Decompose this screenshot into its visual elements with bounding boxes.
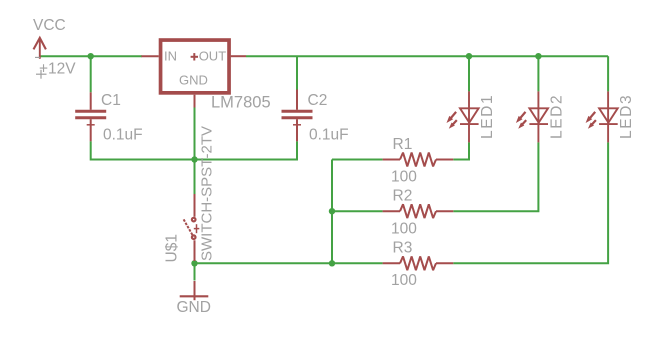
svg-text:GND: GND [177, 299, 211, 316]
resistor R1 [383, 153, 454, 167]
diode LED1 [447, 91, 479, 142]
junction node at VCC/C1 [88, 53, 94, 59]
junction node at switch bottom [191, 260, 197, 266]
svg-text:R1: R1 [393, 136, 413, 153]
plus mark of +OUT [191, 53, 198, 60]
svg-text:C1: C1 [101, 92, 121, 109]
svg-text:VCC: VCC [33, 17, 66, 34]
svg-text:100: 100 [391, 272, 417, 289]
svg-text:LED1: LED1 [479, 94, 496, 139]
wire LED3 top drop [607, 56, 609, 91]
svg-text:100: 100 [391, 169, 417, 186]
svg-text:OUT: OUT [199, 49, 227, 64]
svg-text:LM7805: LM7805 [211, 94, 271, 112]
pin GND stub [194, 95, 196, 108]
pin OUT stub [231, 55, 246, 57]
wire OUT rail [246, 55, 608, 57]
svg-text:LED2: LED2 [549, 94, 566, 139]
svg-text:U$1: U$1 [164, 234, 181, 262]
wire LED2 top drop [537, 56, 539, 91]
svg-text:LED3: LED3 [618, 94, 635, 139]
wire R2 right to LED2 [453, 142, 538, 211]
capacitor C2 [282, 90, 313, 142]
svg-text:R3: R3 [393, 239, 413, 256]
svg-text:GND: GND [179, 72, 208, 87]
resistor R2 [383, 204, 454, 218]
wire LED1 top drop [468, 56, 470, 91]
svg-text:0.1uF: 0.1uF [103, 127, 143, 144]
wire C1 bottom to C2 bottom [91, 141, 297, 159]
pin cross at VCC [36, 70, 47, 79]
wire VCC to IN pin [40, 55, 142, 57]
pin end tick at VCC arrow [35, 56, 40, 58]
svg-text:R2: R2 [393, 188, 413, 205]
junction node at LED1 top [466, 53, 472, 59]
pin IN stub [141, 55, 158, 57]
junction node at LED2 top [535, 53, 541, 59]
svg-text:+12V: +12V [39, 60, 76, 77]
wire R3 right to LED3 [453, 142, 608, 263]
wire C2 top drop [296, 56, 298, 89]
wire switch top [194, 108, 196, 195]
diode LED3 [586, 91, 618, 142]
diode LED2 [516, 91, 548, 142]
wire R3 left [195, 262, 383, 264]
svg-text:SWITCH-SPST-2TV: SWITCH-SPST-2TV [199, 126, 216, 261]
wire left rail R1-R3 [331, 160, 333, 264]
resistor R3 [383, 256, 454, 270]
regulator IC LM7805 box [161, 40, 230, 93]
supply symbol VCC arrow [34, 38, 46, 59]
switch U$1 [184, 194, 200, 261]
wire C1 top drop [90, 56, 92, 92]
svg-text:0.1uF: 0.1uF [309, 127, 349, 144]
wire R1 right to LED1 [453, 142, 469, 159]
wire switch bottom to gnd [194, 261, 196, 281]
capacitor C1 [75, 92, 106, 141]
ground symbol GND [180, 281, 209, 300]
svg-text:100: 100 [391, 220, 417, 237]
junction node at R2 left [329, 208, 335, 214]
wire R1 left [332, 159, 383, 161]
wire R2 left [332, 210, 383, 212]
junction node at switch top [191, 156, 197, 162]
svg-text:C2: C2 [308, 92, 328, 109]
svg-text:IN: IN [164, 49, 177, 64]
junction node at R3 left rail [329, 260, 335, 266]
